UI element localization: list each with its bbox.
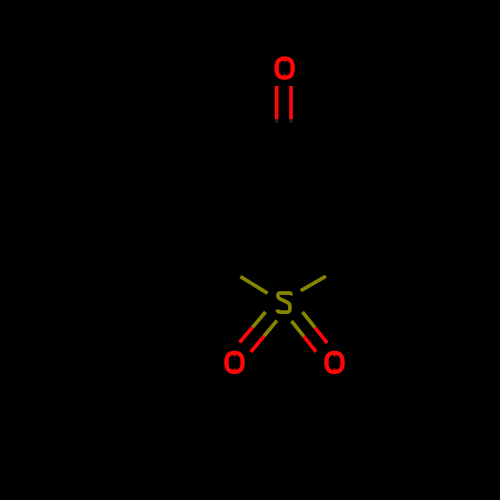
- carbonyl oxygen O (top): [277, 59, 293, 78]
- C4=O double bond carbon-side dark stubs: [277, 119, 291, 123]
- S=O right double bond, inner line: [292, 321, 317, 352]
- S-C6 ring bond (olive half near S): [301, 276, 326, 291]
- S=O left double bond, inner line: [251, 321, 277, 353]
- sulfone oxygen O (bottom left): [226, 353, 242, 372]
- S-C2 ring bond (olive half near S): [240, 277, 267, 294]
- sulfone oxygen O (bottom right): [326, 353, 342, 372]
- S=O left double bond, outer line: [240, 312, 266, 342]
- sulfur S label: [277, 293, 291, 312]
- C4=O double bond (visible red halves): [277, 86, 291, 119]
- S=O right double bond, outer line: [303, 312, 328, 343]
